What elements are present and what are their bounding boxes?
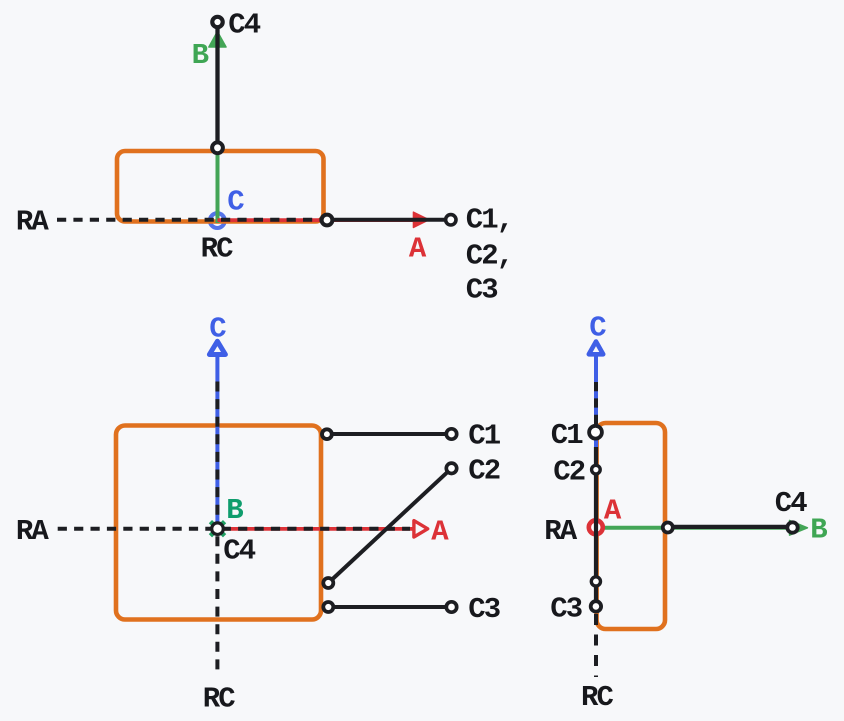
wire pad C2 diagonal <box>328 468 451 583</box>
wire pad C3 row <box>328 605 451 609</box>
junction C3 on body edge <box>323 602 333 612</box>
pads C1,C2,C3 terminal <box>446 215 456 225</box>
junction on body right edge <box>322 215 333 226</box>
svg-text:C4: C4 <box>223 534 256 567</box>
svg-text:C: C <box>227 186 244 219</box>
axis C line (blue) <box>215 350 219 529</box>
pad C4 terminal (side) <box>787 522 797 532</box>
pad C1 (side) <box>589 426 602 439</box>
axis B line (green, side) <box>596 526 801 530</box>
svg-text:RC: RC <box>201 232 234 265</box>
junction on body right edge (side) <box>663 523 673 533</box>
wire body to pads C1-C3 <box>327 218 451 222</box>
axis C marker (blue circle) <box>210 213 225 228</box>
RC dashed centerline (vertical) <box>215 382 219 525</box>
RC dashed segment above C1 <box>594 382 598 440</box>
RC dashed segment below body <box>594 614 598 677</box>
svg-text:C2: C2 <box>553 455 585 488</box>
axis A line (red) <box>218 527 416 531</box>
junction C1 on body edge <box>322 429 332 439</box>
svg-text:RA: RA <box>16 515 50 548</box>
svg-text:C1,: C1, <box>466 203 513 236</box>
axis A arrowhead <box>413 212 429 227</box>
svg-text:C2: C2 <box>468 455 500 488</box>
body outline (top view) <box>117 151 324 222</box>
svg-text:C1: C1 <box>468 420 501 453</box>
wire body to pad C4 (side) <box>668 525 793 529</box>
pad C2 (side) <box>592 465 601 474</box>
svg-text:B: B <box>810 513 827 546</box>
RA dashed centerline (horizontal) <box>58 527 410 531</box>
svg-text:RA: RA <box>544 515 578 548</box>
svg-text:C: C <box>209 313 226 346</box>
axis A line (red) <box>218 218 425 222</box>
axis C arrowhead (hollow, side) <box>589 342 603 355</box>
axis A marker (red circle, side) <box>589 520 603 534</box>
axis B line (green) <box>216 40 220 223</box>
axis B arrowhead (side) <box>790 520 808 535</box>
RC dashed centerline (below origin) <box>215 536 219 676</box>
axis C line (blue, side) <box>594 355 598 448</box>
axis A arrowhead (hollow) <box>414 521 428 537</box>
svg-text:B: B <box>226 494 243 527</box>
svg-text:C1: C1 <box>551 419 584 452</box>
RA dashed centerline <box>57 218 327 222</box>
svg-text:RA: RA <box>16 206 50 239</box>
pad C2 terminal (front) <box>446 463 456 473</box>
svg-text:RC: RC <box>581 681 614 714</box>
pad C4 terminal <box>212 17 222 27</box>
svg-text:C4: C4 <box>775 487 808 520</box>
wire pad C4 to body <box>215 27 219 143</box>
svg-text:C: C <box>589 311 606 344</box>
svg-text:C3: C3 <box>466 274 498 307</box>
svg-text:C3: C3 <box>550 593 582 626</box>
junction on body top edge <box>212 142 223 153</box>
pad C3 (side) <box>591 601 601 611</box>
svg-text:C3: C3 <box>468 593 500 626</box>
svg-text:C4: C4 <box>228 9 261 42</box>
axis B marker (green X) <box>210 522 224 536</box>
svg-text:C2,: C2, <box>466 239 513 272</box>
body outline (front view) <box>116 426 321 620</box>
axis C arrowhead (hollow) <box>209 341 225 354</box>
pad C1 terminal (front) <box>446 429 456 439</box>
body outline (side view) <box>597 423 665 629</box>
junction below RA (side) <box>591 577 600 586</box>
junction C2 on body edge <box>323 578 333 588</box>
origin junction (front) <box>212 523 224 535</box>
svg-text:A: A <box>604 495 622 528</box>
svg-text:RC: RC <box>203 682 236 715</box>
svg-text:B: B <box>192 39 209 72</box>
svg-text:A: A <box>409 233 427 266</box>
pin line C1-C3 (side) <box>594 447 598 608</box>
svg-text:A: A <box>431 516 449 549</box>
wire pad C1 row <box>327 432 452 436</box>
axis B arrowhead <box>209 32 226 47</box>
pad C3 terminal (front) <box>446 602 456 612</box>
